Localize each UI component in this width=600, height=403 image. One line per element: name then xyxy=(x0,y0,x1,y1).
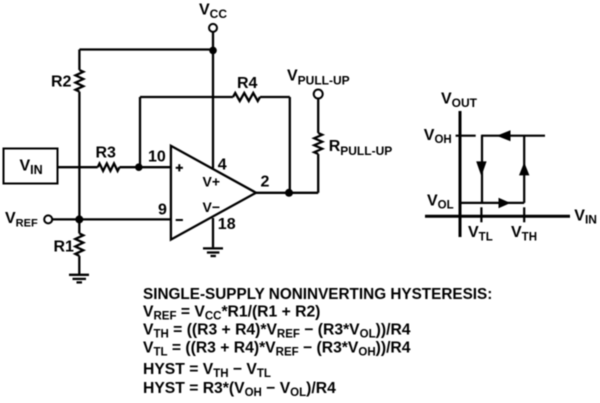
svg-text:VCC: VCC xyxy=(199,2,227,22)
svg-text:R2: R2 xyxy=(51,74,72,91)
svg-text:VIN: VIN xyxy=(574,207,597,226)
svg-text:18: 18 xyxy=(218,216,236,233)
svg-text:VTH: VTH xyxy=(511,224,537,244)
svg-text:V−: V− xyxy=(203,199,221,215)
svg-text:HYST = R3*(VOH − VOL)/R4: HYST = R3*(VOH − VOL)/R4 xyxy=(143,380,336,399)
svg-text:VOH: VOH xyxy=(424,127,452,146)
svg-text:2: 2 xyxy=(261,174,270,191)
svg-text:VOL: VOL xyxy=(427,193,454,212)
svg-text:VOUT: VOUT xyxy=(441,91,478,111)
svg-text:4: 4 xyxy=(218,157,227,174)
svg-text:VTH = ((R3 + R4)*VREF − (R3*VO: VTH = ((R3 + R4)*VREF − (R3*VOL))/R4 xyxy=(143,322,411,341)
svg-text:VPULL-UP: VPULL-UP xyxy=(287,68,350,88)
svg-text:RPULL-UP: RPULL-UP xyxy=(329,138,393,158)
svg-text:VREF: VREF xyxy=(5,210,38,229)
svg-text:10: 10 xyxy=(148,149,166,166)
svg-text:R1: R1 xyxy=(54,239,75,256)
svg-text:VTL = ((R3 + R4)*VREF − (R3*VO: VTL = ((R3 + R4)*VREF − (R3*VOH))/R4 xyxy=(143,340,411,359)
svg-text:VREF = VCC*R1/(R1 + R2): VREF = VCC*R1/(R1 + R2) xyxy=(143,304,320,323)
svg-text:SINGLE-SUPPLY NONINVERTING HYS: SINGLE-SUPPLY NONINVERTING HYSTERESIS: xyxy=(143,286,492,303)
svg-text:VTL: VTL xyxy=(468,224,493,244)
svg-text:R4: R4 xyxy=(237,75,258,92)
svg-text:R3: R3 xyxy=(96,145,117,162)
svg-text:HYST = VTH − VTL: HYST = VTH − VTL xyxy=(143,361,271,380)
svg-text:V+: V+ xyxy=(203,173,221,189)
svg-text:9: 9 xyxy=(158,202,167,219)
